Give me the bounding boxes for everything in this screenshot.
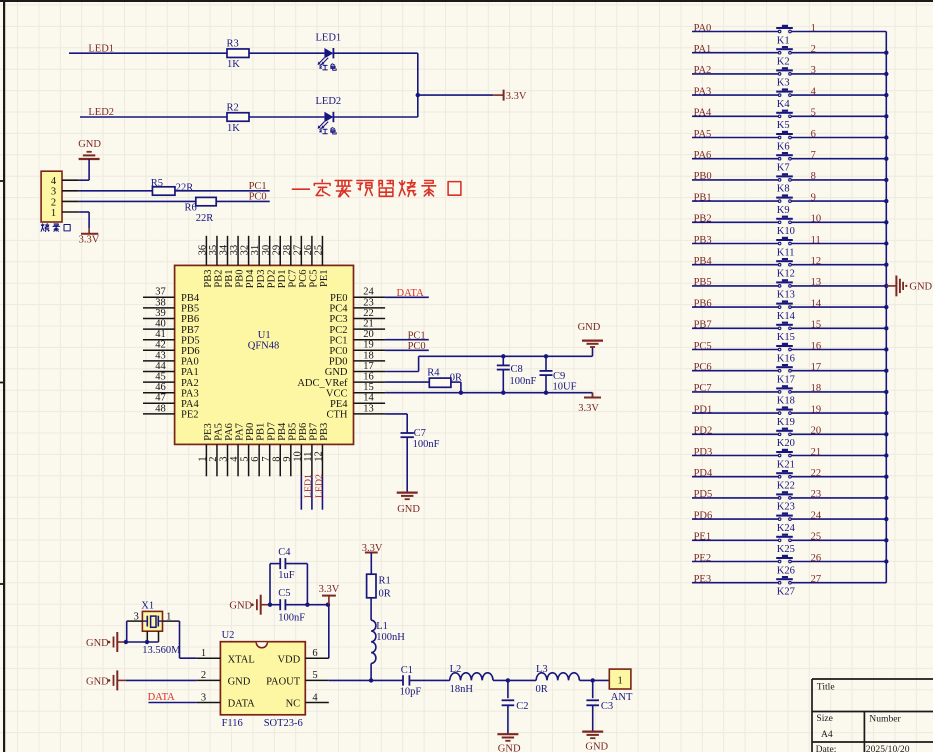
svg-text:100nF: 100nF xyxy=(510,376,537,387)
svg-text:LED2: LED2 xyxy=(314,474,325,498)
svg-text:2: 2 xyxy=(208,456,219,461)
svg-text:PB4: PB4 xyxy=(181,293,200,304)
svg-text:36: 36 xyxy=(198,245,209,256)
svg-text:K14: K14 xyxy=(777,311,796,322)
svg-text:16: 16 xyxy=(363,372,374,383)
svg-text:K5: K5 xyxy=(777,120,790,131)
svg-text:27: 27 xyxy=(811,574,822,585)
svg-text:18nH: 18nH xyxy=(450,684,474,695)
svg-text:11: 11 xyxy=(303,452,314,462)
svg-text:12: 12 xyxy=(811,256,822,267)
svg-text:K25: K25 xyxy=(777,544,795,555)
svg-text:Title: Title xyxy=(817,681,835,692)
svg-text:15: 15 xyxy=(363,382,374,393)
svg-text:0R: 0R xyxy=(450,373,462,384)
svg-text:PB4: PB4 xyxy=(277,422,288,441)
svg-text:GND: GND xyxy=(585,741,608,752)
svg-text:PB5: PB5 xyxy=(181,304,199,315)
svg-text:K13: K13 xyxy=(777,290,795,301)
svg-text:K3: K3 xyxy=(777,78,790,89)
svg-text:24: 24 xyxy=(811,510,822,521)
svg-text:23: 23 xyxy=(363,297,374,308)
svg-text:K24: K24 xyxy=(777,523,796,534)
svg-text:18: 18 xyxy=(363,350,374,361)
svg-text:R3: R3 xyxy=(227,39,239,50)
svg-text:PE0: PE0 xyxy=(330,293,348,304)
svg-text:PB1: PB1 xyxy=(256,423,267,441)
svg-text:PC1: PC1 xyxy=(249,181,267,192)
svg-text:6: 6 xyxy=(250,456,261,461)
svg-text:PC0: PC0 xyxy=(329,346,347,357)
svg-text:100nF: 100nF xyxy=(278,613,305,624)
svg-text:20: 20 xyxy=(811,426,822,437)
svg-text:PC1: PC1 xyxy=(408,330,426,341)
svg-text:K17: K17 xyxy=(777,375,795,386)
svg-text:K26: K26 xyxy=(777,565,795,576)
svg-text:27: 27 xyxy=(292,245,303,256)
svg-text:PA4: PA4 xyxy=(181,399,199,410)
svg-text:PC4: PC4 xyxy=(329,304,348,315)
svg-text:C2: C2 xyxy=(516,701,528,712)
svg-text:GND: GND xyxy=(498,743,521,752)
svg-text:3: 3 xyxy=(201,692,206,703)
svg-text:5: 5 xyxy=(811,108,816,119)
svg-text:PC1: PC1 xyxy=(329,335,347,346)
svg-text:PE2: PE2 xyxy=(181,410,199,421)
svg-text:PC0: PC0 xyxy=(408,341,426,352)
svg-text:R6: R6 xyxy=(185,203,197,214)
svg-text:PB3: PB3 xyxy=(203,270,214,288)
svg-text:47: 47 xyxy=(155,393,166,404)
svg-text:PB1: PB1 xyxy=(224,270,235,288)
svg-text:48: 48 xyxy=(155,403,166,414)
svg-text:4: 4 xyxy=(312,692,318,703)
svg-text:1: 1 xyxy=(811,23,816,34)
svg-text:2025/10/20: 2025/10/20 xyxy=(866,744,910,752)
svg-text:CTH: CTH xyxy=(327,410,348,421)
svg-text:23: 23 xyxy=(811,489,822,500)
svg-text:U2: U2 xyxy=(222,630,235,641)
svg-text:K6: K6 xyxy=(777,141,790,152)
svg-text:Date:: Date: xyxy=(816,744,837,752)
svg-text:29: 29 xyxy=(271,245,282,256)
svg-text:PD1: PD1 xyxy=(277,270,288,289)
svg-text:10: 10 xyxy=(811,214,822,225)
svg-text:K16: K16 xyxy=(777,353,795,364)
svg-text:38: 38 xyxy=(155,297,166,308)
svg-text:14: 14 xyxy=(363,393,374,404)
svg-text:GND: GND xyxy=(909,282,932,293)
svg-text:4: 4 xyxy=(51,176,57,187)
svg-text:8: 8 xyxy=(271,456,282,461)
svg-text:ANT: ANT xyxy=(611,692,633,703)
svg-text:3.3V: 3.3V xyxy=(578,403,599,414)
svg-text:PD2: PD2 xyxy=(266,270,277,289)
svg-text:6: 6 xyxy=(312,648,317,659)
svg-text:39: 39 xyxy=(155,308,166,319)
svg-text:GND: GND xyxy=(397,504,420,515)
svg-text:K22: K22 xyxy=(777,481,795,492)
svg-text:PD4: PD4 xyxy=(245,269,256,288)
svg-text:PD0: PD0 xyxy=(329,357,348,368)
svg-text:28: 28 xyxy=(282,245,293,256)
svg-text:R2: R2 xyxy=(227,102,239,113)
svg-text:C5: C5 xyxy=(278,588,290,599)
svg-text:17: 17 xyxy=(363,361,374,372)
svg-text:PC3: PC3 xyxy=(329,314,347,325)
svg-text:3.3V: 3.3V xyxy=(79,235,100,246)
svg-text:32: 32 xyxy=(240,245,251,256)
svg-text:14: 14 xyxy=(811,298,822,309)
svg-text:ADC_VRef: ADC_VRef xyxy=(297,378,348,389)
svg-text:1K: 1K xyxy=(227,59,240,70)
svg-text:K15: K15 xyxy=(777,332,795,343)
svg-text:4: 4 xyxy=(811,86,817,97)
svg-text:2: 2 xyxy=(51,197,56,208)
svg-text:0R: 0R xyxy=(536,684,548,695)
svg-text:19: 19 xyxy=(363,340,374,351)
svg-text:2: 2 xyxy=(811,44,816,55)
svg-text:PB7: PB7 xyxy=(181,325,199,336)
svg-text:K19: K19 xyxy=(777,417,795,428)
svg-text:46: 46 xyxy=(155,382,166,393)
svg-text:SOT23-6: SOT23-6 xyxy=(264,718,303,729)
svg-text:7: 7 xyxy=(261,456,272,461)
svg-text:34: 34 xyxy=(219,244,230,255)
svg-text:43: 43 xyxy=(155,350,166,361)
svg-text:LED2: LED2 xyxy=(88,107,114,118)
svg-text:9: 9 xyxy=(811,192,816,203)
svg-text:44: 44 xyxy=(155,361,166,372)
svg-text:8: 8 xyxy=(811,171,816,182)
svg-text:PB7: PB7 xyxy=(309,423,320,441)
svg-text:K8: K8 xyxy=(777,184,790,195)
svg-text:42: 42 xyxy=(155,340,166,351)
svg-text:K12: K12 xyxy=(777,269,795,280)
svg-text:DATA: DATA xyxy=(148,692,176,703)
svg-text:37: 37 xyxy=(155,287,166,298)
svg-text:12: 12 xyxy=(314,451,325,462)
svg-text:K10: K10 xyxy=(777,226,795,237)
svg-text:22R: 22R xyxy=(176,182,194,193)
svg-text:L2: L2 xyxy=(450,664,462,675)
svg-text:LED2: LED2 xyxy=(316,96,342,107)
svg-text:19: 19 xyxy=(811,404,822,415)
svg-text:LED1: LED1 xyxy=(303,474,314,498)
svg-text:GND: GND xyxy=(325,367,348,378)
svg-text:PE3: PE3 xyxy=(203,423,214,441)
svg-text:1: 1 xyxy=(198,456,209,461)
svg-text:PA6: PA6 xyxy=(224,423,235,441)
svg-text:C3: C3 xyxy=(601,701,613,712)
svg-text:PC7: PC7 xyxy=(287,270,298,288)
svg-text:PA5: PA5 xyxy=(214,423,225,441)
svg-text:1: 1 xyxy=(51,208,56,219)
svg-text:PC5: PC5 xyxy=(309,270,320,288)
svg-text:PB3: PB3 xyxy=(319,423,330,441)
svg-text:17: 17 xyxy=(811,362,822,373)
svg-text:K2: K2 xyxy=(777,57,790,68)
svg-text:4: 4 xyxy=(229,456,240,462)
svg-text:PD5: PD5 xyxy=(181,335,200,346)
svg-text:15: 15 xyxy=(811,320,822,331)
svg-text:GND: GND xyxy=(228,677,251,688)
svg-text:2: 2 xyxy=(201,670,206,681)
svg-text:QFN48: QFN48 xyxy=(248,341,280,352)
svg-text:100nH: 100nH xyxy=(376,632,405,643)
svg-text:22R: 22R xyxy=(196,213,214,224)
svg-text:GND: GND xyxy=(229,601,252,612)
svg-text:K9: K9 xyxy=(777,205,790,216)
svg-text:GND: GND xyxy=(86,676,109,687)
svg-text:PAOUT: PAOUT xyxy=(266,677,301,688)
svg-text:K18: K18 xyxy=(777,396,795,407)
svg-text:20: 20 xyxy=(363,329,374,340)
svg-text:3: 3 xyxy=(811,65,816,76)
svg-text:PD6: PD6 xyxy=(181,346,200,357)
svg-text:R1: R1 xyxy=(379,575,391,586)
svg-text:K20: K20 xyxy=(777,438,795,449)
svg-text:C8: C8 xyxy=(511,364,523,375)
svg-text:PB6: PB6 xyxy=(181,314,199,325)
svg-text:C4: C4 xyxy=(278,547,291,558)
svg-text:L3: L3 xyxy=(536,664,548,675)
svg-text:10: 10 xyxy=(292,451,303,462)
svg-text:XTAL: XTAL xyxy=(228,654,255,665)
svg-text:PE1: PE1 xyxy=(319,270,330,288)
svg-text:K27: K27 xyxy=(777,587,795,598)
svg-text:DATA: DATA xyxy=(397,288,425,299)
svg-text:R4: R4 xyxy=(427,367,440,378)
svg-text:DATA: DATA xyxy=(228,699,256,710)
svg-text:LED1: LED1 xyxy=(88,43,114,54)
svg-text:U1: U1 xyxy=(258,330,271,341)
svg-text:K23: K23 xyxy=(777,502,795,513)
svg-text:13: 13 xyxy=(811,277,822,288)
svg-text:22: 22 xyxy=(363,308,374,319)
svg-text:1: 1 xyxy=(201,648,206,659)
svg-text:1K: 1K xyxy=(227,123,240,134)
svg-text:L1: L1 xyxy=(376,621,388,632)
svg-text:3: 3 xyxy=(51,187,56,198)
svg-text:3.3V: 3.3V xyxy=(506,91,527,102)
svg-text:26: 26 xyxy=(303,245,314,256)
svg-text:100nF: 100nF xyxy=(413,439,440,450)
svg-text:41: 41 xyxy=(155,329,166,340)
svg-text:PC0: PC0 xyxy=(249,192,267,203)
svg-text:GND: GND xyxy=(78,139,101,150)
svg-text:30: 30 xyxy=(261,245,272,256)
svg-text:25: 25 xyxy=(811,532,822,543)
svg-text:PC2: PC2 xyxy=(329,325,347,336)
svg-text:13.560M: 13.560M xyxy=(142,645,181,656)
svg-text:PC6: PC6 xyxy=(298,270,309,288)
svg-text:6: 6 xyxy=(811,129,816,140)
svg-text:PA0: PA0 xyxy=(181,357,199,368)
svg-text:21: 21 xyxy=(363,319,374,330)
svg-text:7: 7 xyxy=(811,150,816,161)
svg-text:1uF: 1uF xyxy=(278,570,295,581)
svg-text:C1: C1 xyxy=(401,665,413,676)
svg-text:X1: X1 xyxy=(141,601,154,612)
svg-text:10pF: 10pF xyxy=(400,686,422,697)
svg-text:PA2: PA2 xyxy=(181,378,199,389)
svg-text:LED1: LED1 xyxy=(316,32,342,43)
svg-text:16: 16 xyxy=(811,341,822,352)
svg-text:VCC: VCC xyxy=(326,388,348,399)
svg-text:21: 21 xyxy=(811,447,822,458)
svg-text:F116: F116 xyxy=(222,718,243,729)
svg-text:PA1: PA1 xyxy=(181,367,199,378)
svg-text:PB5: PB5 xyxy=(287,423,298,441)
svg-text:31: 31 xyxy=(250,245,261,256)
svg-text:PE4: PE4 xyxy=(330,399,348,410)
svg-text:25: 25 xyxy=(314,245,325,256)
svg-text:3: 3 xyxy=(219,456,230,461)
svg-text:PB2: PB2 xyxy=(214,270,225,288)
svg-text:9: 9 xyxy=(282,456,293,461)
svg-text:C7: C7 xyxy=(414,428,426,439)
svg-text:PB0: PB0 xyxy=(245,423,256,441)
svg-text:0R: 0R xyxy=(379,588,391,599)
svg-text:24: 24 xyxy=(363,287,374,298)
svg-text:1: 1 xyxy=(617,676,622,687)
svg-text:26: 26 xyxy=(811,553,822,564)
svg-text:PA3: PA3 xyxy=(181,388,199,399)
svg-text:40: 40 xyxy=(155,319,166,330)
svg-text:K11: K11 xyxy=(777,247,795,258)
svg-text:45: 45 xyxy=(155,372,166,383)
svg-text:K1: K1 xyxy=(777,35,790,46)
svg-text:C9: C9 xyxy=(553,371,565,382)
svg-text:PA7: PA7 xyxy=(235,423,246,441)
svg-text:PD3: PD3 xyxy=(256,270,267,289)
svg-text:R5: R5 xyxy=(151,178,163,189)
svg-text:Number: Number xyxy=(869,713,901,724)
svg-text:33: 33 xyxy=(229,245,240,256)
svg-text:PB0: PB0 xyxy=(235,270,246,288)
svg-text:3.3V: 3.3V xyxy=(319,584,340,595)
svg-text:11: 11 xyxy=(811,235,821,246)
svg-text:GND: GND xyxy=(86,638,109,649)
svg-text:PB6: PB6 xyxy=(298,423,309,441)
svg-text:K7: K7 xyxy=(777,163,790,174)
svg-text:5: 5 xyxy=(312,670,317,681)
svg-text:NC: NC xyxy=(286,699,301,710)
svg-text:Size: Size xyxy=(816,713,833,724)
svg-text:10UF: 10UF xyxy=(553,382,577,393)
svg-text:A4: A4 xyxy=(821,729,833,740)
svg-text:K4: K4 xyxy=(777,99,791,110)
svg-text:5: 5 xyxy=(240,456,251,461)
svg-text:K21: K21 xyxy=(777,459,795,470)
svg-text:13: 13 xyxy=(363,403,374,414)
svg-text:GND: GND xyxy=(578,322,601,333)
svg-text:35: 35 xyxy=(208,245,219,256)
svg-text:PD7: PD7 xyxy=(266,422,277,441)
svg-text:18: 18 xyxy=(811,383,822,394)
svg-text:22: 22 xyxy=(811,468,822,479)
svg-text:VDD: VDD xyxy=(277,654,300,665)
